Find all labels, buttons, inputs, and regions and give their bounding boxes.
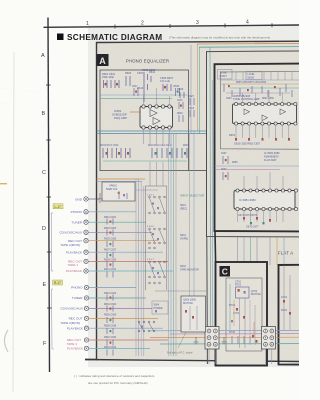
right lower board wires [284, 265, 290, 330]
IC6081 bottom pins [236, 207, 298, 210]
tone board header text box 2 [246, 72, 262, 80]
wire bus below section A (blue) [97, 130, 207, 132]
board ref tag L [53, 204, 63, 209]
cluster above IC601 left [132, 86, 138, 96]
right board inner circuit outline [221, 72, 300, 150]
left margin orange fleck [0, 183, 7, 184]
selector switch frame S601 [145, 186, 167, 290]
right lower board caps [283, 300, 291, 315]
group bracket L [51, 213, 53, 271]
RC cluster tape1 L [104, 258, 117, 277]
orange wire stub [130, 111, 142, 113]
main schematic box [85, 41, 299, 361]
VR601 label [106, 184, 118, 191]
section C board box [216, 262, 268, 366]
IC651 bottom pins [234, 122, 297, 125]
svg-text:TUNER: TUNER [72, 296, 83, 300]
svg-text:PLAYBACK: PLAYBACK [67, 326, 84, 330]
svg-text:R-17: R-17 [54, 281, 61, 285]
section label C [220, 266, 231, 277]
section A box bottom extension [189, 170, 207, 172]
svg-text:PLAYBACK: PLAYBACK [66, 269, 83, 273]
svg-text:E: E [43, 282, 47, 288]
svg-text:PLAYBACK: PLAYBACK [66, 250, 83, 254]
RC cluster tuner/cd R [104, 292, 117, 312]
svg-text:. _ ... ~ -- .. - . ~ .: . _ ... ~ -- .. - . ~ . [20, 89, 43, 93]
right inner thick board box [215, 64, 300, 232]
top ruler line [44, 25, 300, 27]
bottom resistor row right group [152, 148, 187, 158]
IC6081 pin drops [238, 172, 284, 222]
wire across muting board top [155, 290, 207, 292]
IC651 pin drops [236, 90, 289, 138]
svg-text:( ) : indicates rating and t: ( ) : indicates rating and tolerance of … [74, 374, 155, 378]
top resistor row components [104, 76, 185, 98]
board ref tag R [53, 280, 63, 285]
svg-text:PHONO: PHONO [71, 210, 83, 214]
bottom teal connection wire [103, 160, 187, 162]
tone IC651 label [233, 94, 260, 101]
cluster above IC601 right [174, 86, 180, 96]
extra wires inside board C [234, 300, 255, 345]
tape monitor label [180, 265, 199, 272]
IC601 label [112, 109, 127, 120]
jack wires R [89, 287, 136, 289]
flat amp IC6081 labels [264, 151, 280, 162]
paper grain overlay [88, 25, 299, 367]
IC601 internal op-amp triangles [150, 110, 157, 117]
top resistor row labels [102, 68, 184, 91]
svg-text:.. ~ .: .. ~ . [3, 101, 9, 105]
Q701 label [251, 290, 261, 296]
svg-text:B: B [42, 111, 46, 117]
muting control block [181, 296, 206, 332]
ground symbol at connector [222, 337, 227, 344]
group bracket R [52, 289, 54, 349]
wires inside tone board [221, 79, 300, 81]
svg-text:are use product for P.R. Germa: are use product for P.R. Germany (GM/GHA… [88, 381, 148, 385]
tone board header text box [218, 70, 233, 80]
svg-text:GND: GND [75, 197, 83, 201]
gap verticals between boards [191, 44, 200, 134]
svg-text:PLAYBACK: PLAYBACK [67, 347, 84, 351]
left ruler line [48, 18, 50, 373]
wires above flat amp IC [215, 165, 300, 167]
bus bundle 2 [169, 134, 177, 356]
left ruler letters [41, 53, 47, 347]
svg-text:L-17: L-17 [55, 205, 62, 209]
op-amp IC601 SVI8522DP body [140, 107, 173, 128]
vertical orange stub at connector [253, 322, 255, 337]
jack labels R [60, 286, 84, 331]
VR601 components [118, 192, 120, 194]
svg-text:..- ~ .. _ ..: ..- ~ .. _ .. [2, 86, 15, 90]
section C inner circuit outline [226, 278, 262, 351]
muting block components [185, 310, 194, 319]
title block marker [57, 34, 64, 41]
bottom resistor row labels [101, 145, 190, 147]
Q701 marks [238, 289, 240, 292]
bus bundle 1 [136, 179, 144, 357]
right lower board box [279, 265, 300, 365]
gap bus blue vertical [211, 80, 214, 331]
tone IC651 body [233, 104, 297, 124]
svg-text:TAPE 2(MON): TAPE 2(MON) [60, 321, 80, 325]
switch wafer S602 tape monitor [147, 259, 165, 284]
wire teal above right box [199, 46, 299, 49]
pointer line [178, 332, 186, 348]
switch wafer lower [138, 321, 155, 332]
switch wafer S601-1 [147, 195, 165, 214]
IC601 top pins [142, 105, 171, 108]
bottom resistor row left group [103, 148, 130, 158]
left margin crease [13, 52, 14, 392]
IC6081 top pins [236, 189, 298, 192]
long vertical board divider 2 [214, 231, 217, 262]
wire blue to connectors [150, 329, 299, 331]
gap component cluster [189, 96, 195, 117]
gap bus teal vertical [209, 47, 212, 344]
IC601 drop extensions [150, 162, 163, 186]
caps near connector [252, 335, 258, 343]
section A board box [100, 70, 189, 171]
right outer board box [207, 51, 300, 237]
wire teal to connectors [160, 343, 299, 345]
pin drop wires [144, 88, 170, 144]
long vertical board divider 1 [206, 237, 209, 364]
feedback network chain [144, 72, 151, 102]
page curl mark bottom-left [5, 330, 9, 352]
IC651 top pins [234, 102, 297, 105]
svg-text:CD/V.DISC/AUX: CD/V.DISC/AUX [60, 307, 83, 311]
svg-text:TAPE 1: TAPE 1 [68, 263, 79, 267]
section C vertical wires [240, 298, 246, 348]
jack labels L [59, 197, 83, 254]
volume control VR601 box [102, 182, 135, 201]
C header component labels [235, 281, 242, 287]
IC601 bottom pins [142, 126, 171, 129]
wire blue from box A to selector [97, 180, 143, 182]
svg-text:4: 4 [246, 20, 249, 26]
wire magenta to connectors [170, 333, 299, 335]
ghost show-through smudge [2, 86, 43, 105]
RC cluster rec/pb L [104, 238, 117, 259]
schematic paper tint [96, 42, 299, 361]
ruler numbers [86, 20, 249, 27]
resistors above flat amp [223, 156, 228, 180]
RC cluster tuner/cd L [104, 216, 117, 236]
svg-text:TUNER: TUNER [71, 220, 82, 224]
wire orange from box A to selector [97, 178, 146, 180]
jacks R (circle with x) [84, 285, 88, 350]
RC cluster tape1 R [104, 336, 117, 356]
connector CN702 (right of board C) [262, 327, 276, 350]
wire orange above right box [197, 42, 299, 45]
muting block text [183, 299, 197, 306]
transistor block Q701 [236, 287, 250, 298]
gnd wire and ground symbol [88, 198, 100, 200]
input selector label [180, 194, 204, 198]
switch wafer S601-2 [147, 226, 165, 249]
wire stubs from tone board down to right lower board [270, 237, 284, 265]
wire blue inside A [100, 94, 189, 96]
tone board upper text specks [226, 82, 274, 100]
IC651 internal marks [244, 109, 286, 121]
left ruler ticks [46, 85, 52, 308]
flat amp IC6081 body [234, 191, 295, 210]
right-side components in box A [177, 100, 183, 122]
svg-text:PHONO: PHONO [71, 286, 83, 290]
caps under IC651 [235, 138, 290, 141]
svg-text:A: A [41, 53, 45, 59]
ruler tick 4 [271, 23, 273, 27]
wire teal inside A [100, 97, 172, 99]
wire stubs from tone board down to board C [238, 237, 258, 262]
svg-text:CD/V.DISC/AUX: CD/V.DISC/AUX [59, 231, 82, 235]
ruler tick 1 [114, 25, 116, 29]
wire bus below section A (teal) [97, 133, 207, 135]
ruler tick 2 [169, 24, 171, 28]
svg-text:D: D [42, 226, 46, 232]
svg-text:C: C [42, 170, 46, 176]
connector CN701 (left of board C) [205, 327, 219, 350]
section C wire teal vertical [229, 284, 231, 330]
jacks L (circle with x) [84, 197, 88, 273]
wire from volume block [135, 189, 158, 191]
caps under IC6081 [243, 217, 271, 222]
top edge drop stubs [236, 72, 292, 80]
svg-text:TAPE 1: TAPE 1 [67, 342, 78, 346]
ruler tick 3 [224, 24, 226, 28]
section label A [97, 54, 109, 66]
connector drop wires to board edge [209, 349, 272, 364]
svg-text:TAPE 2(MON): TAPE 2(MON) [60, 243, 80, 247]
RC cluster rec/pb R [104, 314, 117, 335]
wire orange to connectors [150, 336, 299, 338]
jack wires L [88, 211, 136, 213]
rec selector label [180, 234, 188, 241]
small relay block [152, 301, 168, 314]
section C caps [236, 308, 245, 319]
C bottom components [232, 336, 250, 344]
bus to muting verticals [190, 131, 195, 296]
small caps upper tone board [228, 85, 276, 91]
